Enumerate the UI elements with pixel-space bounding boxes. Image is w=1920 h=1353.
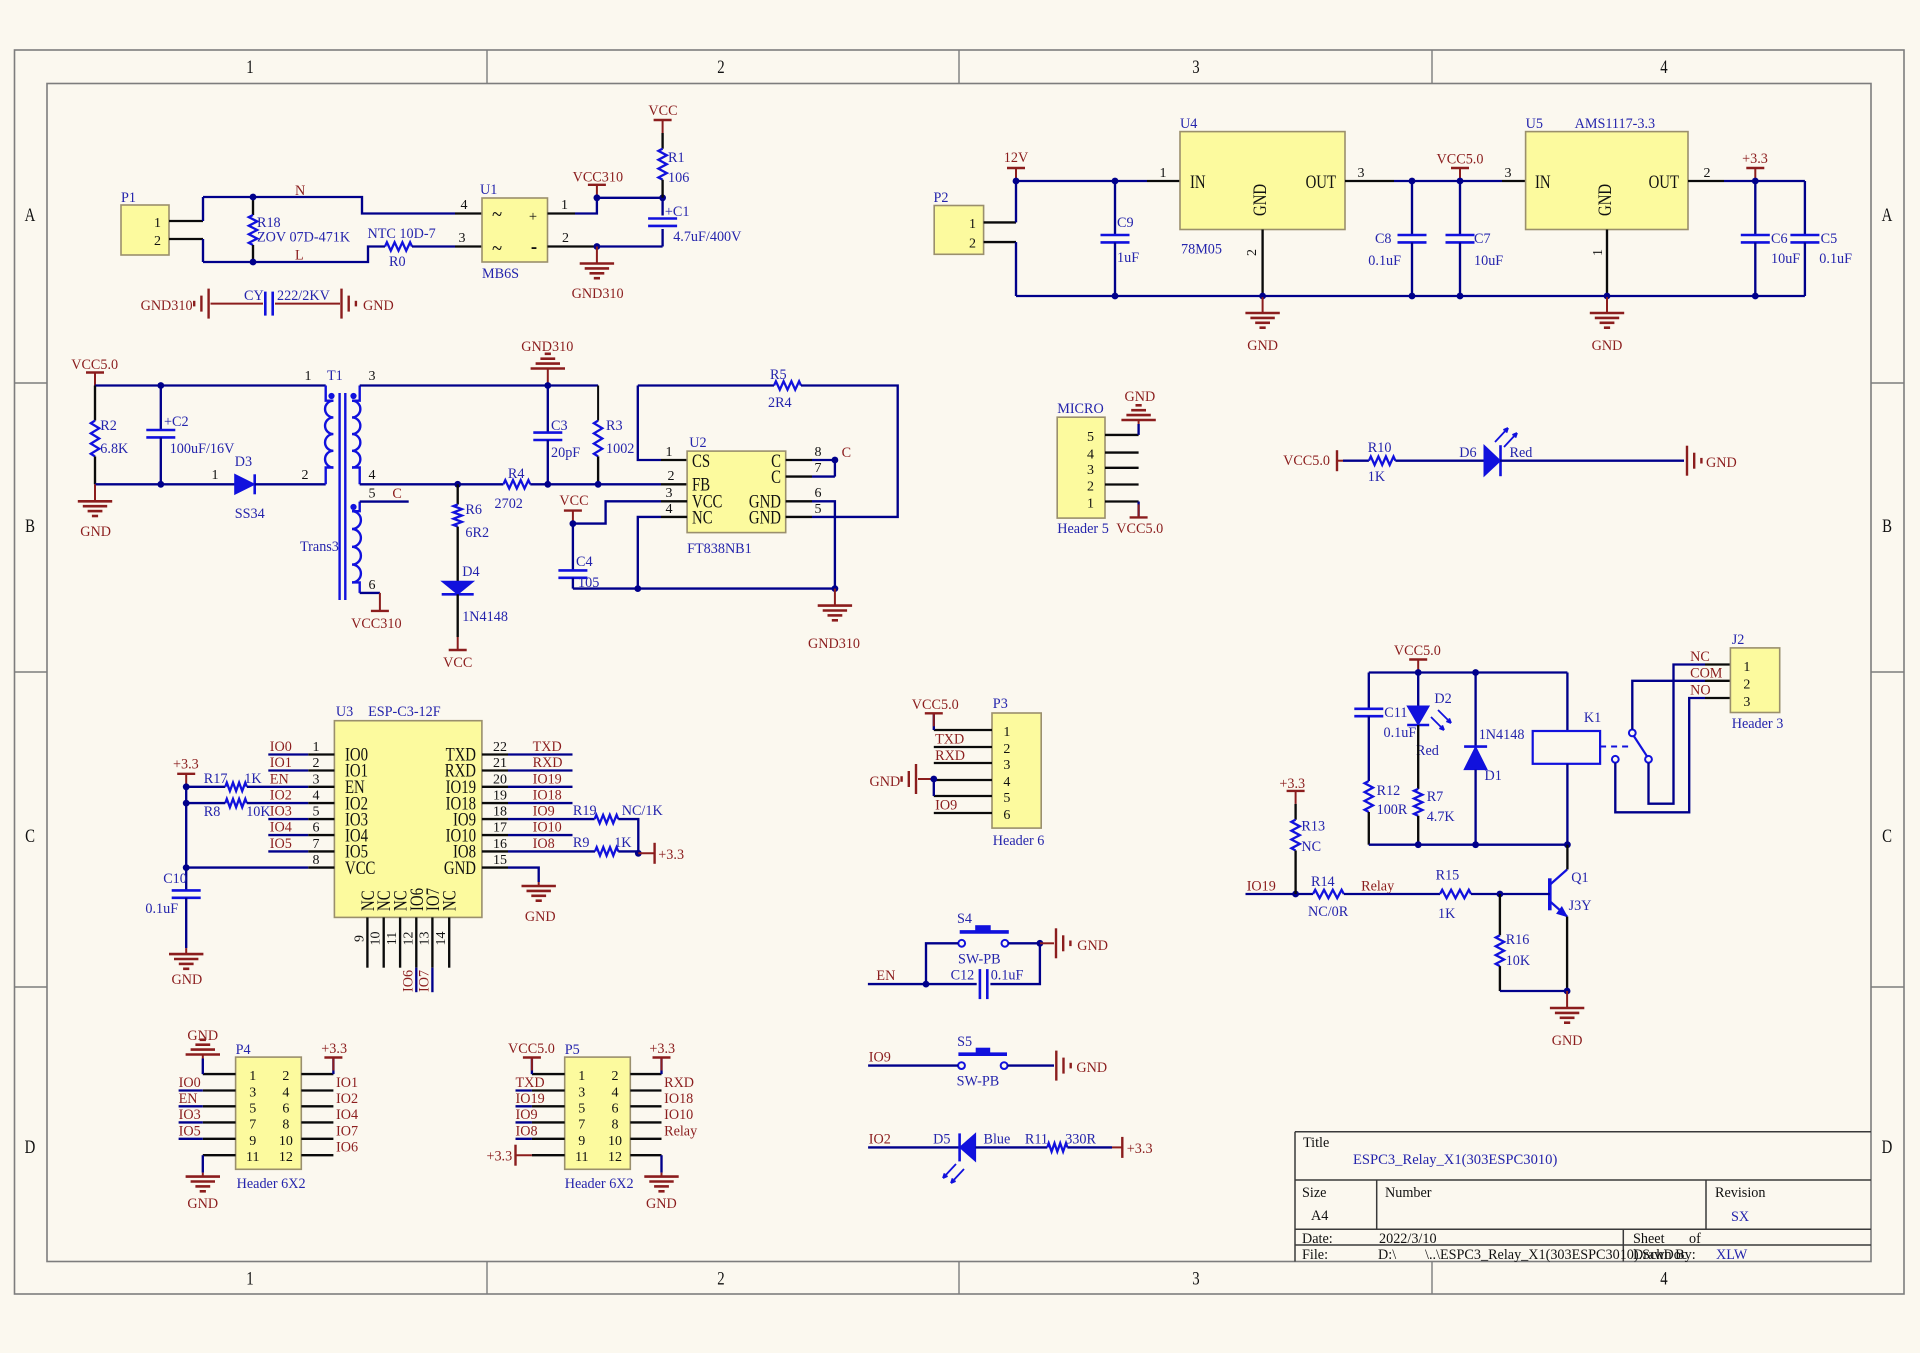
svg-text:100R: 100R: [1377, 802, 1408, 818]
svg-text:3: 3: [578, 1086, 585, 1101]
svg-text:0.1uF: 0.1uF: [991, 968, 1024, 984]
svg-text:12: 12: [279, 1150, 293, 1165]
power port VCC5.0 flyback: [94, 373, 96, 386]
wire U4 out rail: [1394, 180, 1502, 182]
junction R13 bottom: [1292, 891, 1299, 898]
svg-text:3: 3: [459, 231, 466, 246]
svg-text:A: A: [1882, 204, 1893, 225]
svg-text:1: 1: [1160, 166, 1167, 181]
junction C10 top: [183, 864, 190, 871]
svg-text:20pF: 20pF: [551, 445, 580, 461]
svg-text:D: D: [1882, 1136, 1893, 1157]
wire bottom GND310 rail: [573, 587, 835, 589]
resistor R11 330R: [1047, 1143, 1067, 1151]
svg-text:P1: P1: [121, 190, 136, 206]
svg-text:+3.3: +3.3: [649, 1041, 675, 1057]
svg-text:4: 4: [1003, 775, 1010, 790]
svg-text:R8: R8: [204, 804, 221, 820]
svg-text:1: 1: [578, 1069, 585, 1084]
svg-text:GND310: GND310: [808, 636, 860, 652]
wire D5 to R11: [976, 1146, 1048, 1148]
svg-text:IO19: IO19: [1247, 879, 1276, 895]
svg-text:VCC: VCC: [648, 103, 677, 119]
svg-text:3: 3: [369, 369, 376, 384]
capacitor C5: [1804, 181, 1806, 235]
svg-text:C12: C12: [951, 968, 975, 984]
wire S4 right leg: [1008, 942, 1040, 944]
svg-text:+3.3: +3.3: [658, 847, 684, 863]
wire COM to J2-2: [1632, 681, 1705, 730]
svg-text:GND310: GND310: [141, 298, 193, 314]
svg-text:Drawn By:: Drawn By:: [1633, 1247, 1696, 1263]
ground GND310 at U1: [596, 247, 598, 264]
pin U1-1: [548, 212, 576, 214]
svg-text:D1: D1: [1485, 768, 1502, 784]
ground GND at D6: [1686, 446, 1688, 476]
svg-text:U1: U1: [480, 182, 497, 198]
svg-text:VCC: VCC: [443, 655, 472, 671]
net label IO9 P5: [516, 1121, 532, 1123]
svg-text:SS34: SS34: [235, 506, 265, 522]
svg-text:R7: R7: [1427, 789, 1444, 805]
resistor R5 2R4: [774, 381, 801, 389]
junction C9 bottom: [1112, 293, 1119, 300]
pin MICRO-2: [1105, 483, 1139, 485]
junction R3 bottom: [595, 481, 602, 488]
svg-text:C11: C11: [1384, 705, 1407, 721]
wire IO6 stub bottom: [415, 968, 417, 993]
svg-text:222/2KV: 222/2KV: [277, 288, 331, 304]
pin U2-5 GND: [786, 516, 812, 518]
T1 primary polarity dot: [328, 393, 334, 399]
svg-text:4: 4: [1087, 448, 1094, 463]
pin U5 GND: [1606, 230, 1608, 297]
svg-text:3: 3: [1003, 758, 1010, 773]
svg-text:IO9: IO9: [935, 798, 957, 814]
svg-text:16: 16: [493, 837, 507, 852]
wire P4-1 to GND: [202, 1059, 204, 1075]
svg-text:GND: GND: [172, 972, 203, 988]
svg-text:IO10: IO10: [664, 1107, 693, 1123]
ground GND above P4: [202, 1055, 204, 1059]
svg-text:R3: R3: [606, 418, 623, 434]
wire NO to J2-3: [1615, 698, 1705, 812]
title block outline: [1295, 1131, 1871, 1133]
svg-text:U2: U2: [689, 435, 706, 451]
wire IO9 to S5: [868, 1064, 958, 1066]
svg-text:C: C: [771, 466, 781, 487]
svg-text:GND: GND: [749, 507, 781, 528]
svg-text:NC/1K: NC/1K: [622, 803, 664, 819]
svg-text:+3.3: +3.3: [1742, 151, 1768, 167]
svg-text:2: 2: [612, 1069, 619, 1084]
pin MICRO-1 to VCC5.0: [1105, 500, 1139, 502]
svg-text:+3.3: +3.3: [173, 757, 199, 773]
svg-text:9: 9: [249, 1134, 256, 1149]
capacitor C12: [979, 969, 982, 999]
wire relay bottom rail: [1369, 844, 1568, 846]
svg-text:IO19: IO19: [533, 771, 562, 787]
svg-text:2: 2: [282, 1069, 289, 1084]
svg-text:GND: GND: [363, 298, 394, 314]
LED D6 Red: [1484, 445, 1501, 476]
capacitor C3: [547, 386, 549, 433]
junction VCC310 node: [594, 194, 601, 201]
capacitor C10: [185, 868, 187, 891]
svg-text:VCC310: VCC310: [351, 616, 401, 632]
svg-text:0.1uF: 0.1uF: [1368, 253, 1401, 269]
svg-text:Q1: Q1: [1571, 870, 1588, 886]
wire EN to S4: [868, 983, 926, 985]
svg-text:1: 1: [969, 217, 976, 232]
svg-text:+C1: +C1: [665, 204, 690, 220]
svg-text:OUT: OUT: [1649, 171, 1680, 192]
relay armature: [1634, 736, 1648, 757]
svg-text:IO9: IO9: [533, 804, 555, 820]
pins P5 left: [532, 1073, 565, 1075]
wire S4 left leg: [926, 943, 958, 984]
svg-text:IO7: IO7: [417, 970, 433, 992]
svg-text:9: 9: [578, 1134, 585, 1149]
svg-text:MICRO: MICRO: [1057, 401, 1104, 417]
svg-text:EN: EN: [270, 771, 289, 787]
wire P4-11 to GND: [202, 1155, 204, 1172]
svg-text:IO19: IO19: [516, 1091, 545, 1107]
power port VCC5.0 at P3: [933, 713, 935, 726]
wire T1 pin5 net C: [360, 500, 409, 502]
svg-text:C: C: [25, 825, 35, 846]
svg-text:P5: P5: [565, 1042, 580, 1058]
ground GND at CY: [340, 289, 342, 319]
svg-text:3: 3: [313, 772, 320, 787]
svg-text:IO18: IO18: [533, 788, 562, 804]
svg-text:7: 7: [249, 1117, 256, 1132]
svg-text:14: 14: [434, 932, 449, 946]
pins P4 left: [203, 1073, 236, 1075]
power port +3.3 at R17: [185, 774, 187, 787]
ground GND at R2: [94, 484, 96, 501]
svg-text:5: 5: [369, 487, 376, 502]
svg-text:2: 2: [969, 237, 976, 252]
power port VCC at C4: [572, 511, 574, 524]
regulator U4 78M05: [1147, 180, 1180, 182]
svg-text:NC: NC: [692, 507, 713, 528]
svg-text:2: 2: [1245, 249, 1260, 256]
svg-text:J3Y: J3Y: [1569, 898, 1592, 914]
svg-text:GND310: GND310: [572, 286, 624, 302]
svg-text:ZOV 07D-471K: ZOV 07D-471K: [257, 230, 351, 246]
svg-text:Header 3: Header 3: [1732, 716, 1784, 732]
svg-text:Header 5: Header 5: [1057, 521, 1109, 537]
wire VCC pin8: [186, 866, 308, 868]
svg-text:J2: J2: [1732, 632, 1745, 648]
svg-text:L: L: [295, 248, 304, 264]
wire net L: [203, 247, 385, 263]
svg-text:VCC5.0: VCC5.0: [1437, 152, 1484, 168]
svg-text:C10: C10: [163, 871, 187, 887]
svg-text:6R2: 6R2: [465, 525, 489, 541]
svg-text:GND: GND: [1125, 389, 1156, 405]
svg-text:1: 1: [313, 740, 320, 755]
svg-text:1K: 1K: [1368, 469, 1386, 485]
svg-text:NTC 10D-7: NTC 10D-7: [368, 226, 436, 242]
svg-text:K1: K1: [1584, 710, 1601, 726]
wire U2-6 down: [812, 501, 835, 588]
relay switch common contact: [1629, 730, 1636, 737]
pin U2-4 NC: [661, 516, 687, 518]
svg-text:Header 6: Header 6: [993, 833, 1045, 849]
wire pins 8-7 link: [834, 460, 836, 477]
svg-text:C: C: [392, 486, 401, 502]
svg-text:1: 1: [666, 445, 673, 460]
svg-text:1: 1: [1003, 725, 1010, 740]
svg-text:R1: R1: [668, 150, 685, 166]
svg-text:13: 13: [417, 932, 432, 946]
power port +3.3 at R9: [638, 852, 654, 854]
svg-text:D5: D5: [933, 1132, 950, 1148]
svg-text:U5: U5: [1526, 116, 1543, 132]
relay K1 dashed link: [1600, 746, 1629, 748]
svg-text:ESPC3_Relay_X1(303ESPC3010): ESPC3_Relay_X1(303ESPC3010): [1353, 1152, 1557, 1168]
svg-text:4: 4: [612, 1086, 619, 1101]
svg-text:IO1: IO1: [336, 1075, 358, 1091]
svg-text:C7: C7: [1474, 231, 1491, 247]
svg-text:10: 10: [279, 1134, 293, 1149]
wire IO9 to R19: [508, 818, 595, 820]
svg-text:GND: GND: [187, 1028, 218, 1044]
svg-text:1: 1: [249, 1069, 256, 1084]
svg-text:Sheet: Sheet: [1633, 1231, 1665, 1247]
svg-text:1uF: 1uF: [1117, 250, 1139, 266]
svg-text:COM: COM: [1690, 666, 1723, 682]
svg-text:+3.3: +3.3: [486, 1149, 512, 1165]
wire D6 to GND: [1500, 460, 1684, 462]
junction C7 bottom: [1457, 293, 1464, 300]
wire CY left: [211, 303, 264, 305]
svg-text:4: 4: [313, 789, 320, 804]
junction D2 bottom: [1415, 841, 1422, 848]
svg-text:4: 4: [461, 198, 468, 213]
wire R2 to C2 bottom: [95, 483, 235, 485]
svg-text:1N4148: 1N4148: [462, 609, 508, 625]
svg-text:IO8: IO8: [516, 1123, 538, 1139]
wire VCC5.0 to R10: [1337, 460, 1343, 462]
net label IO8 P5: [516, 1138, 532, 1140]
svg-text:U3: U3: [336, 704, 353, 720]
junction EN node: [923, 981, 930, 988]
svg-text:4.7uF/400V: 4.7uF/400V: [673, 229, 742, 245]
svg-text:2: 2: [1743, 678, 1750, 693]
svg-text:9: 9: [352, 935, 367, 942]
svg-text:VCC5.0: VCC5.0: [912, 697, 959, 713]
resistor R12 100R: [1365, 781, 1373, 812]
svg-text:VCC5.0: VCC5.0: [508, 1041, 555, 1057]
svg-text:P3: P3: [993, 696, 1008, 712]
svg-text:SX: SX: [1731, 1209, 1749, 1225]
svg-text:Blue: Blue: [984, 1132, 1011, 1148]
resistor R19 NC/1K: [595, 815, 619, 823]
wire IO3 stub: [268, 818, 308, 820]
svg-text:1: 1: [154, 216, 161, 231]
junction C3 bottom: [544, 481, 551, 488]
svg-text:4: 4: [666, 502, 673, 517]
svg-text:File:: File:: [1302, 1247, 1328, 1263]
svg-text:1K: 1K: [614, 835, 632, 851]
wire P5-2 to +3.3: [660, 1059, 662, 1075]
wire IO1 stub: [268, 769, 308, 771]
svg-text:IO9: IO9: [869, 1050, 891, 1066]
T1 aux polarity dot: [350, 504, 356, 510]
ground GND at MICRO: [1138, 420, 1140, 424]
transformer T1 core: [338, 393, 340, 600]
svg-text:VCC: VCC: [559, 493, 588, 509]
ground GND at S4: [1040, 942, 1054, 944]
svg-text:C9: C9: [1117, 215, 1134, 231]
svg-text:2022/3/10: 2022/3/10: [1379, 1231, 1437, 1247]
svg-text:8: 8: [612, 1117, 619, 1132]
power port +3.3 main: [1754, 168, 1756, 181]
junction coil bottom: [1564, 841, 1571, 848]
pins P4 right: [301, 1073, 333, 1075]
svg-text:1N4148: 1N4148: [1479, 727, 1525, 743]
svg-text:IO9: IO9: [516, 1107, 538, 1123]
junction D1 top: [1472, 669, 1479, 676]
junction R6 top: [454, 481, 461, 488]
wire S5 to GND: [1008, 1064, 1055, 1066]
T1 secondary polarity dot: [350, 393, 356, 399]
header P4: [236, 1057, 302, 1169]
wire R19 to +3.3 node: [618, 819, 638, 853]
svg-text:+3.3: +3.3: [321, 1041, 347, 1057]
pin MICRO-3: [1105, 467, 1139, 469]
wire P5-1 to VCC5.0: [531, 1059, 533, 1075]
svg-text:R4: R4: [508, 466, 525, 482]
regulator U5 AMS1117-3.3: [1502, 180, 1526, 182]
wire GND pin15: [508, 868, 539, 882]
wire emitter down: [1566, 917, 1568, 992]
svg-text:OUT: OUT: [1306, 171, 1337, 192]
svg-text:100uF/16V: 100uF/16V: [170, 441, 235, 457]
border zone tick lines: [486, 50, 488, 84]
resistor R17 1K: [186, 786, 225, 788]
diode D4 1N4148: [442, 581, 474, 594]
wire CY right: [275, 303, 340, 305]
svg-text:RXD: RXD: [533, 755, 563, 771]
svg-text:7: 7: [578, 1117, 585, 1132]
svg-text:GND310: GND310: [521, 339, 573, 355]
pin U5-2 OUT: [1688, 180, 1724, 182]
svg-text:P2: P2: [934, 190, 949, 206]
wire U2-8 net C: [812, 459, 835, 461]
svg-text:R19: R19: [573, 803, 597, 819]
relay switch NO contact: [1612, 756, 1619, 763]
wire IO10 stub: [508, 834, 573, 836]
svg-text:GND: GND: [187, 1196, 218, 1212]
junction R17 node: [183, 783, 190, 790]
svg-text:S4: S4: [957, 911, 972, 927]
power port VCC5.0 at P5: [531, 1058, 533, 1071]
svg-text:7: 7: [815, 461, 822, 476]
wire P1 to N/L: [202, 197, 204, 221]
svg-text:GND: GND: [1594, 184, 1615, 216]
wire R10 to D6: [1395, 460, 1484, 462]
svg-text:4: 4: [1660, 56, 1668, 77]
junction C6 bottom: [1752, 293, 1759, 300]
power port VCC5.0 at MICRO: [1138, 504, 1140, 517]
svg-text:4: 4: [369, 468, 376, 483]
svg-text:Header 6X2: Header 6X2: [237, 1176, 306, 1192]
svg-text:GND: GND: [80, 524, 111, 540]
pins U3 left: [308, 753, 334, 755]
svg-text:6: 6: [282, 1101, 289, 1116]
svg-text:IO0: IO0: [270, 739, 292, 755]
svg-text:1: 1: [246, 56, 253, 77]
junction C8 bottom: [1409, 293, 1416, 300]
svg-text:2: 2: [717, 1268, 724, 1289]
svg-text:VCC310: VCC310: [573, 170, 623, 186]
resistor R3: [597, 386, 599, 421]
ground GND at U5: [1606, 296, 1608, 313]
svg-text:VCC: VCC: [345, 857, 375, 878]
svg-text:D3: D3: [235, 454, 252, 470]
junction pin8: [832, 457, 839, 464]
svg-text:4: 4: [282, 1086, 289, 1101]
svg-text:IO6: IO6: [336, 1140, 358, 1156]
header P3: [992, 713, 1041, 828]
svg-text:IO2: IO2: [270, 788, 292, 804]
svg-text:+3.3: +3.3: [1127, 1141, 1153, 1157]
svg-text:IO2: IO2: [336, 1091, 358, 1107]
svg-text:6: 6: [815, 486, 822, 501]
wire R14 to R15: [1344, 893, 1440, 895]
svg-text:T1: T1: [327, 368, 343, 384]
junction U5 GND: [1604, 293, 1611, 300]
svg-text:Title: Title: [1303, 1135, 1329, 1151]
junction C3 top: [544, 382, 551, 389]
junction NC bottom: [634, 585, 641, 592]
resistor R6: [457, 484, 459, 504]
svg-text:R5: R5: [770, 367, 787, 383]
capacitor C6: [1754, 181, 1756, 235]
svg-text:1K: 1K: [244, 771, 262, 787]
wire P2-1 to 12V rail: [1015, 181, 1017, 222]
svg-text:NC/0R: NC/0R: [1308, 904, 1349, 920]
svg-text:12V: 12V: [1004, 150, 1029, 166]
svg-text:1: 1: [305, 369, 312, 384]
pin U4-3 OUT: [1345, 180, 1394, 182]
svg-text:R6: R6: [465, 502, 482, 518]
wire IO18 stub: [508, 802, 573, 804]
power port VCC310 at T1: [379, 593, 381, 611]
svg-text:D6: D6: [1459, 445, 1476, 461]
svg-text:FT838NB1: FT838NB1: [687, 541, 752, 557]
svg-text:R9: R9: [573, 835, 590, 851]
capacitor C11: [1368, 673, 1370, 709]
svg-text:CS: CS: [692, 450, 710, 471]
svg-text:P4: P4: [236, 1042, 251, 1058]
junction D1 bottom: [1472, 841, 1479, 848]
svg-text:IO18: IO18: [664, 1091, 693, 1107]
svg-text:0.1uF: 0.1uF: [1819, 251, 1852, 267]
pin U2-2 FB: [661, 483, 687, 485]
svg-text:EN: EN: [876, 968, 895, 984]
svg-text:11: 11: [246, 1150, 259, 1165]
svg-text:Red: Red: [1416, 743, 1439, 759]
svg-text:GND: GND: [1552, 1033, 1583, 1049]
ground GND below P4: [202, 1173, 204, 1177]
svg-text:12: 12: [401, 932, 416, 946]
wire P4-2 to +3.3: [332, 1059, 334, 1075]
